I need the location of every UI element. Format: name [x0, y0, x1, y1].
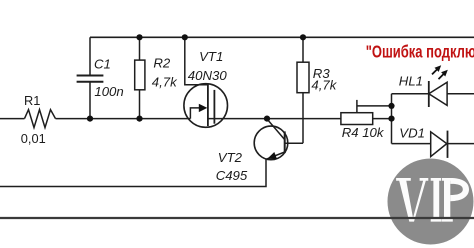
- svg-text:VT2: VT2: [218, 150, 243, 165]
- HL1 emission arrow 1: [432, 69, 437, 74]
- node mid C1: [87, 116, 93, 122]
- svg-text:HL1: HL1: [399, 73, 423, 88]
- svg-text:R4 10k: R4 10k: [342, 125, 385, 140]
- svg-text:VD1: VD1: [399, 126, 425, 141]
- svg-text:C495: C495: [216, 168, 248, 183]
- wire top rail: [90, 36, 474, 38]
- VT1 gate arrow: [199, 104, 208, 112]
- capacitor C1: [89, 37, 91, 75]
- resistor R1: [25, 110, 56, 128]
- wire input left: [0, 118, 25, 120]
- diode VD1: [392, 143, 431, 145]
- VIP watermark logo: [388, 159, 474, 245]
- resistor R3: [302, 37, 304, 62]
- node top R2: [136, 34, 142, 40]
- wire LED branch vertical: [391, 94, 393, 144]
- node R4 tap: [388, 103, 394, 109]
- resistor R2: [139, 37, 141, 60]
- node mid R2: [136, 116, 142, 122]
- svg-text:R1: R1: [24, 93, 40, 108]
- wire R1 to VT1 gate: [56, 118, 191, 120]
- svg-text:4,7k: 4,7k: [152, 74, 178, 89]
- node R4 out: [388, 116, 394, 122]
- mosfet VT1: [184, 84, 228, 128]
- svg-text:"Ошибка подключения: "Ошибка подключения: [366, 42, 474, 62]
- node top VT1 drain: [182, 34, 188, 40]
- LED HL1: [392, 93, 429, 95]
- transistor VT2: [254, 126, 288, 160]
- svg-text:VT1: VT1: [199, 49, 223, 64]
- VT2 emitter arrow: [267, 152, 277, 159]
- svg-text:0,01: 0,01: [21, 131, 46, 146]
- HL1 emission arrow 2: [439, 74, 445, 80]
- node VT2 collector: [264, 116, 270, 122]
- svg-text:C1: C1: [94, 56, 111, 71]
- node top R3: [300, 34, 306, 40]
- wire VT2 to R4: [267, 118, 341, 120]
- svg-text:4,7k: 4,7k: [311, 77, 337, 92]
- trimmer R4: [341, 113, 373, 125]
- svg-text:40N30: 40N30: [188, 68, 228, 83]
- svg-text:100n: 100n: [94, 84, 123, 99]
- wire bottom rail: [0, 217, 474, 219]
- svg-text:R2: R2: [153, 56, 171, 71]
